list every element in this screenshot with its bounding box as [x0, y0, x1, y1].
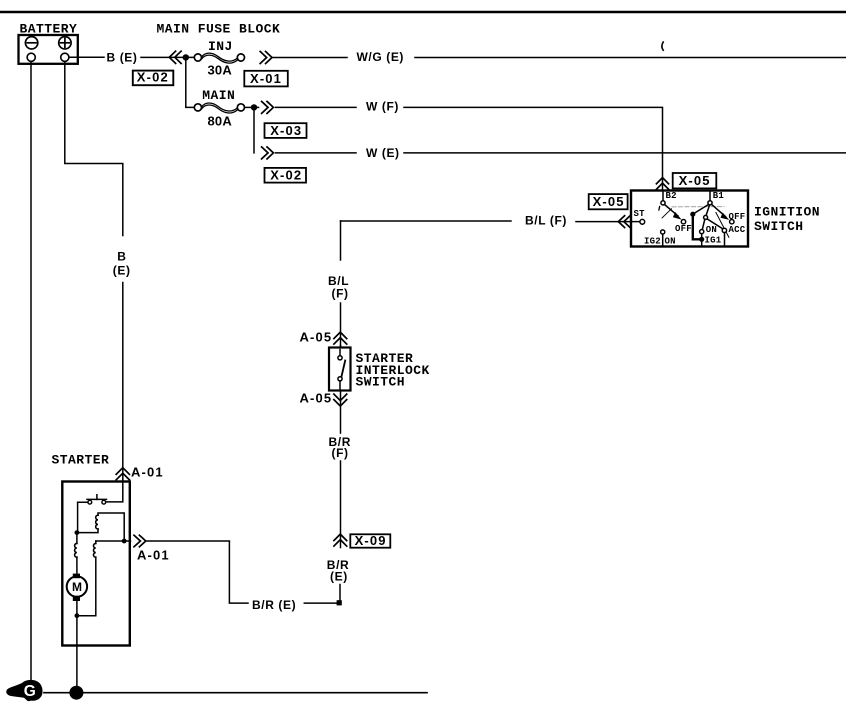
wire down to corner	[339, 585, 341, 602]
svg-text:X-01: X-01	[250, 71, 282, 86]
motor M	[67, 574, 87, 601]
wire B(E) to starter	[122, 283, 124, 480]
connector X-02 chevron lower	[262, 147, 274, 159]
wire down to W(E) row	[253, 110, 255, 153]
svg-text:STARTER: STARTER	[52, 453, 110, 468]
wire to W(E) label	[276, 152, 357, 154]
ground junction dot	[69, 686, 83, 700]
svg-text:B: B	[117, 250, 126, 264]
svg-text:X-02: X-02	[270, 168, 302, 183]
svg-text:B (E): B (E)	[107, 50, 138, 64]
starter interlock switch label	[356, 351, 430, 390]
wire into starter	[106, 480, 123, 502]
svg-text:SWITCH: SWITCH	[356, 375, 406, 390]
starter box M1	[62, 482, 130, 646]
contact ACC	[707, 219, 745, 247]
svg-text:X-09: X-09	[355, 533, 387, 548]
wire to W(F) label	[276, 106, 357, 108]
wire B/L(F) horizontal from interlock	[341, 220, 512, 222]
wire junction down to MAIN fuse	[186, 60, 195, 107]
svg-text:INJ: INJ	[208, 39, 233, 54]
wire B(E) label to connector	[141, 56, 194, 58]
wire starter to ground bus	[76, 618, 78, 690]
node B/R (E) stack	[327, 558, 349, 583]
wire exit starter	[96, 540, 131, 542]
wire to interlock connector	[340, 303, 342, 348]
junction dot exit	[122, 539, 127, 544]
svg-text:80A: 80A	[208, 113, 233, 128]
svg-text:OFF: OFF	[729, 212, 746, 222]
wire W/G (E) to right edge	[415, 57, 846, 59]
wire battery to B(E) label	[69, 56, 104, 58]
connector A-05 chevron top	[334, 332, 347, 344]
wire starter to B/R(E)	[147, 540, 229, 542]
ignition switch U1	[631, 191, 748, 247]
junction dot motor bottom	[75, 613, 80, 618]
contact OFF left	[675, 220, 692, 235]
wire motor to junction	[76, 597, 78, 614]
battery B1	[19, 35, 78, 64]
svg-text:OFF: OFF	[675, 224, 692, 234]
connector X-05 label box left	[589, 194, 628, 209]
connector X-03 label box	[265, 123, 307, 138]
svg-text:IG2: IG2	[644, 236, 661, 246]
wire battery positive down and over	[65, 61, 123, 235]
svg-text:ON: ON	[706, 225, 717, 235]
connector X-09 label box	[350, 533, 390, 548]
pin B1	[708, 191, 725, 205]
svg-text:X-05: X-05	[679, 173, 711, 188]
pin B2	[661, 191, 677, 205]
fuse MAIN 80A	[194, 88, 244, 128]
svg-text:B/R (E): B/R (E)	[252, 598, 296, 612]
wire from contact left	[78, 502, 88, 530]
connector A-01 chevron right	[134, 535, 146, 547]
connector X-09 chevron	[334, 534, 347, 546]
wire W(E) to right edge	[404, 152, 846, 154]
connector A-05 chevron bottom	[334, 394, 347, 406]
pin ST	[634, 209, 646, 224]
svg-text:A-01: A-01	[137, 548, 170, 563]
wire below interlock	[340, 391, 342, 433]
mechanical link dashed	[672, 206, 724, 208]
svg-text:(E): (E)	[330, 570, 348, 584]
coil field	[80, 541, 96, 616]
svg-text:ST: ST	[634, 209, 646, 219]
svg-text:(F): (F)	[332, 286, 349, 300]
contact B	[704, 215, 708, 219]
switch arms from B1	[694, 204, 729, 237]
connector X-01 label box	[244, 71, 287, 87]
connector X-05 label box top	[673, 173, 717, 188]
node B/R (F) stack	[329, 435, 351, 460]
pin IG2	[644, 230, 676, 247]
svg-text:X-03: X-03	[270, 123, 302, 138]
svg-text:ACC: ACC	[729, 225, 746, 235]
coil pull-in	[78, 513, 125, 539]
connector X-05 chevron top	[656, 178, 668, 190]
contact A	[691, 212, 695, 216]
svg-text:MAIN: MAIN	[202, 88, 235, 103]
pin IG1	[699, 235, 722, 246]
wire B/R(E) horizontal	[304, 602, 337, 604]
junction dot after MAIN fuse	[245, 104, 259, 110]
svg-text:MAIN FUSE BLOCK: MAIN FUSE BLOCK	[157, 22, 281, 37]
svg-text:A-05: A-05	[300, 391, 333, 406]
contact OFF right	[729, 212, 746, 224]
svg-text:(E): (E)	[113, 264, 131, 278]
wire to W/G label	[273, 57, 347, 59]
ground bus wire	[44, 692, 427, 694]
wire into interlock	[340, 346, 342, 348]
wire W(F) to ignition switch	[404, 107, 663, 190]
contact ON	[700, 219, 717, 237]
connector X-02 label box	[133, 70, 174, 86]
svg-text:G: G	[24, 683, 36, 700]
svg-text:ON: ON	[665, 236, 676, 246]
connector X-05 chevron left	[618, 216, 630, 228]
junction dot	[75, 530, 80, 535]
node B/L (F) stack	[328, 274, 349, 300]
svg-text:W (F): W (F)	[366, 100, 399, 114]
connector A-01 chevron top	[116, 468, 129, 480]
thick link to IG1	[693, 216, 700, 239]
switch arm B2 to OFF	[659, 205, 682, 220]
svg-text:B1: B1	[713, 191, 725, 201]
svg-text:X-05: X-05	[593, 194, 625, 209]
ground symbol G	[6, 680, 42, 701]
wire from starter to label	[229, 542, 248, 604]
wire B/L(F) to ignition ST	[576, 221, 640, 223]
svg-text:W (E): W (E)	[366, 146, 400, 160]
wire battery negative to ground	[30, 61, 32, 680]
node B (E) label stack	[113, 250, 131, 278]
svg-text:A-05: A-05	[300, 330, 333, 345]
top border line	[0, 11, 846, 14]
connector X-02 chevron	[169, 51, 181, 63]
svg-text:M: M	[72, 580, 83, 594]
solenoid contact switch	[87, 495, 107, 504]
wire B/L vertical	[340, 221, 342, 260]
connector X-01 chevron	[260, 52, 272, 64]
wire to X-09	[340, 461, 342, 548]
svg-text:A-01: A-01	[131, 464, 164, 479]
svg-text:IGNITION: IGNITION	[754, 204, 820, 219]
connector X-02 label box lower	[265, 168, 307, 183]
connector X-03 chevron	[262, 101, 274, 113]
svg-text:(F): (F)	[332, 446, 349, 460]
svg-text:30A: 30A	[208, 62, 233, 77]
svg-text:IG1: IG1	[705, 235, 722, 245]
svg-text:B/L (F): B/L (F)	[525, 214, 567, 228]
stray mark	[662, 42, 663, 50]
junction dot	[183, 54, 189, 60]
ignition switch label	[754, 204, 820, 234]
starter interlock switch S1	[329, 348, 351, 391]
svg-text:SWITCH: SWITCH	[754, 219, 804, 234]
junction square	[337, 600, 342, 605]
svg-text:B2: B2	[666, 191, 677, 201]
svg-text:W/G (E): W/G (E)	[357, 50, 405, 64]
fuse INJ 30A	[194, 39, 244, 78]
coil hold-in	[75, 535, 77, 576]
svg-text:X-02: X-02	[137, 70, 169, 85]
